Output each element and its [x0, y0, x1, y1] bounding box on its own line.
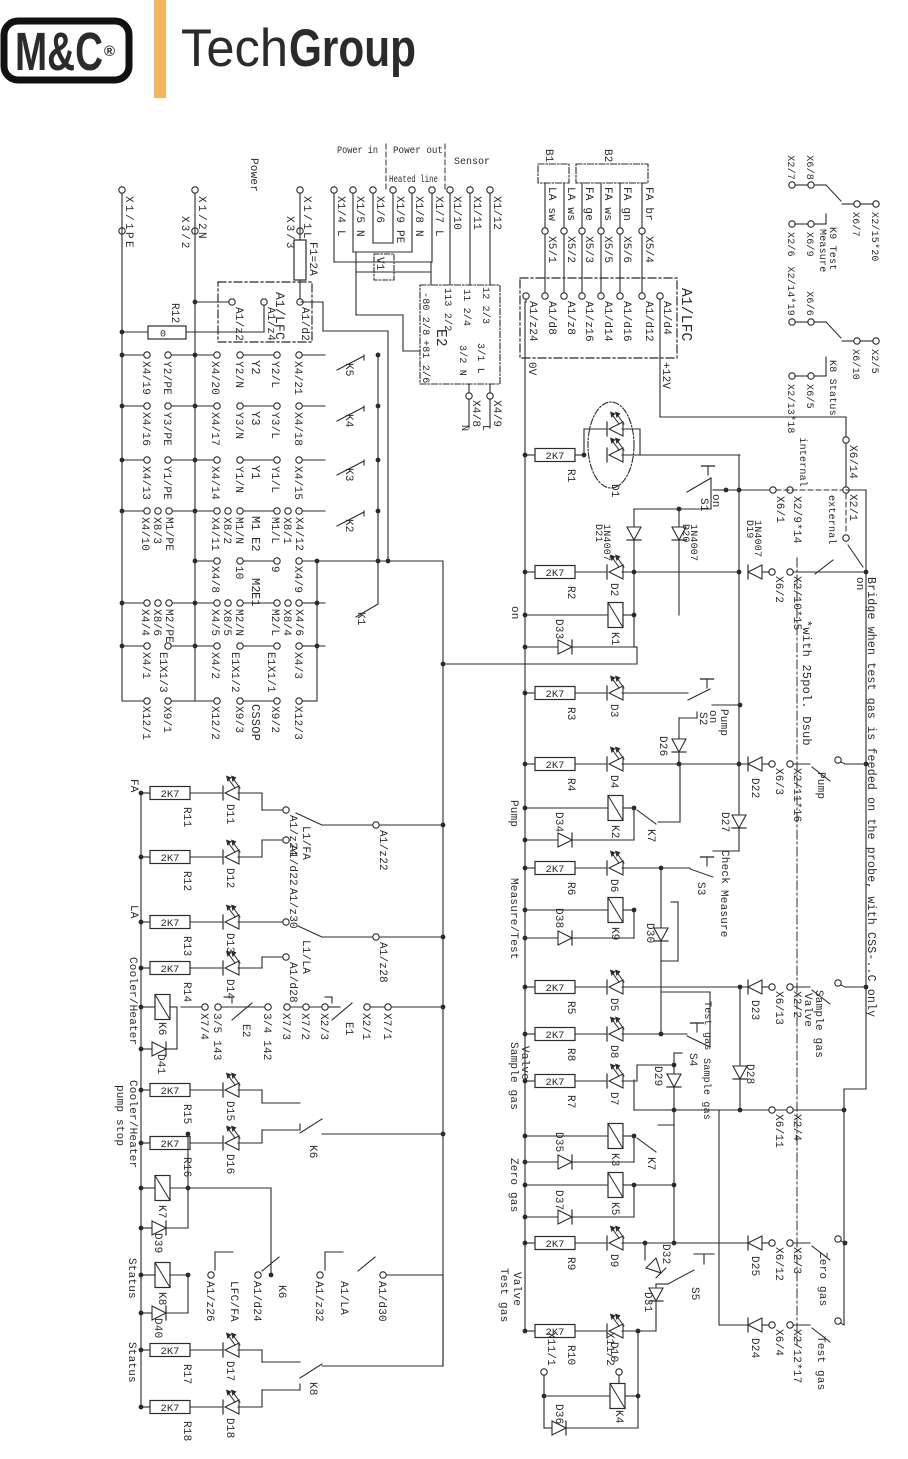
svg-text:X6/11: X6/11	[772, 1114, 784, 1148]
svg-text:E2: E2	[239, 1024, 251, 1038]
svg-text:10: 10	[232, 566, 244, 580]
svg-text:X6/5: X6/5	[803, 384, 815, 409]
svg-text:X1/6: X1/6	[373, 196, 385, 223]
svg-text:2K7: 2K7	[546, 1030, 565, 1042]
svg-text:FA ws: FA ws	[601, 187, 613, 221]
svg-text:D35: D35	[552, 1132, 564, 1152]
svg-text:R15: R15	[180, 1104, 192, 1124]
svg-text:0: 0	[160, 330, 166, 341]
svg-text:Y2/N: Y2/N	[232, 361, 244, 388]
svg-text:Y2/PE: Y2/PE	[160, 361, 172, 395]
svg-text:X2/12*17: X2/12*17	[790, 1329, 802, 1383]
svg-text:E1: E1	[342, 1022, 354, 1036]
svg-text:B1: B1	[542, 149, 554, 163]
svg-text:K1: K1	[608, 632, 620, 646]
svg-text:X9/2: X9/2	[268, 706, 280, 733]
svg-text:X5/5: X5/5	[601, 236, 613, 263]
svg-text:X1/5 N: X1/5 N	[353, 196, 365, 237]
svg-text:X2/5: X2/5	[868, 349, 880, 374]
svg-text:A1/d12: A1/d12	[642, 301, 654, 342]
svg-text:D12: D12	[223, 868, 235, 888]
svg-text:X8/3: X8/3	[150, 517, 162, 544]
svg-text:A1/z32: A1/z32	[312, 1281, 324, 1322]
svg-text:A1/LA: A1/LA	[337, 1281, 349, 1315]
svg-text:S5: S5	[688, 1287, 700, 1301]
svg-text:2K7: 2K7	[546, 1077, 565, 1089]
svg-text:D37: D37	[552, 1190, 564, 1210]
svg-text:X12/1: X12/1	[139, 706, 151, 740]
svg-text:2K7: 2K7	[546, 760, 565, 772]
svg-text:X6/8: X6/8	[803, 155, 815, 180]
svg-text:K6: K6	[306, 1145, 318, 1159]
svg-text:D24: D24	[748, 1338, 760, 1359]
svg-text:D27: D27	[718, 812, 730, 832]
svg-text:Cooler/Heater: Cooler/Heater	[126, 1080, 138, 1168]
svg-text:Zero gas: Zero gas	[507, 1158, 519, 1212]
svg-text:A1/z4: A1/z4	[264, 307, 276, 341]
svg-text:X4/10: X4/10	[138, 517, 150, 551]
svg-text:X6/14: X6/14	[846, 445, 858, 479]
svg-text:K7: K7	[644, 829, 656, 843]
svg-text:L: L	[479, 425, 490, 431]
svg-text:M1/PE: M1/PE	[162, 517, 174, 551]
svg-text:X1/1L: X1/1L	[300, 196, 312, 241]
svg-text:X8/6: X8/6	[150, 609, 162, 636]
svg-text:Zero gas: Zero gas	[816, 1252, 828, 1306]
svg-text:Y3/PE: Y3/PE	[160, 412, 172, 446]
svg-text:X2/14*19: X2/14*19	[784, 266, 796, 316]
svg-text:X4/4: X4/4	[138, 609, 150, 636]
svg-text:A1/d28: A1/d28	[286, 962, 298, 1003]
svg-text:Pump: Pump	[814, 772, 826, 799]
svg-text:D39: D39	[151, 1233, 163, 1253]
svg-text:Bridge when test gas is feeded: Bridge when test gas is feeded on the pr…	[864, 577, 877, 1017]
svg-text:K7: K7	[155, 1205, 167, 1219]
svg-text:K5: K5	[342, 363, 354, 377]
svg-text:on: on	[508, 606, 520, 620]
svg-text:Measure/Test: Measure/Test	[507, 878, 519, 960]
svg-text:X1/9 PE: X1/9 PE	[393, 196, 405, 244]
svg-text:12 2/3: 12 2/3	[479, 287, 491, 324]
svg-text:A1/z22: A1/z22	[376, 830, 388, 871]
svg-text:K8: K8	[155, 1292, 167, 1306]
svg-text:A1/z24: A1/z24	[526, 301, 538, 342]
svg-text:R7: R7	[564, 1095, 576, 1109]
svg-text:X1/1PE: X1/1PE	[122, 196, 134, 250]
svg-text:X1/10: X1/10	[450, 196, 462, 230]
svg-text:®: ®	[104, 43, 115, 60]
svg-text:Group: Group	[289, 19, 416, 78]
svg-text:X1/12: X1/12	[490, 196, 502, 230]
svg-text:FA br: FA br	[642, 187, 654, 221]
svg-text:R9: R9	[564, 1257, 576, 1271]
svg-text:2K7: 2K7	[161, 918, 180, 930]
svg-text:X9/1: X9/1	[160, 706, 172, 733]
svg-text:D30: D30	[643, 923, 655, 943]
svg-text:*with 25pol. Dsub: *with 25pol. Dsub	[799, 620, 813, 746]
svg-text:3/4 142: 3/4 142	[260, 1013, 272, 1061]
svg-text:2K7: 2K7	[161, 1086, 180, 1098]
svg-text:R4: R4	[564, 778, 576, 792]
svg-text:X1/2N: X1/2N	[195, 196, 207, 241]
svg-text:M2/N: M2/N	[232, 609, 244, 636]
svg-text:D32: D32	[659, 1244, 671, 1264]
svg-text:Y2/L: Y2/L	[268, 361, 280, 388]
svg-text:R1: R1	[564, 469, 576, 483]
svg-text:X8/5: X8/5	[220, 609, 232, 636]
svg-text:R11: R11	[180, 807, 192, 828]
svg-text:X2/3: X2/3	[790, 1247, 802, 1274]
svg-text:D26: D26	[656, 736, 668, 756]
svg-text:FA gn: FA gn	[620, 187, 632, 221]
svg-text:X6/4: X6/4	[772, 1329, 784, 1356]
svg-text:K4: K4	[342, 414, 354, 428]
svg-text:E2: E2	[432, 329, 448, 347]
svg-text:D34: D34	[552, 812, 564, 833]
svg-text:K4: K4	[612, 1410, 624, 1424]
svg-text:FA: FA	[127, 779, 139, 793]
svg-text:Power in: Power in	[337, 145, 378, 157]
svg-text:R6: R6	[564, 882, 576, 896]
svg-text:X4/5: X4/5	[208, 609, 220, 636]
svg-text:R5: R5	[564, 1001, 576, 1015]
svg-text:1N4007: 1N4007	[600, 524, 611, 561]
svg-text:N: N	[458, 425, 469, 431]
svg-text:X1/7 L: X1/7 L	[432, 196, 444, 237]
svg-text:LA: LA	[127, 905, 139, 919]
svg-text:Test gas: Test gas	[497, 1268, 509, 1322]
svg-text:K7: K7	[644, 1157, 656, 1171]
svg-text:on: on	[853, 577, 865, 591]
svg-text:D6: D6	[607, 879, 619, 893]
svg-text:X6/9: X6/9	[803, 232, 815, 257]
svg-text:D33: D33	[552, 619, 564, 639]
svg-text:3/5 143: 3/5 143	[210, 1013, 222, 1061]
svg-text:A1/d14: A1/d14	[601, 301, 613, 342]
svg-text:D23: D23	[748, 1000, 760, 1020]
svg-text:-80 2/8: -80 2/8	[419, 292, 431, 335]
svg-text:3/1 L: 3/1 L	[474, 343, 486, 374]
svg-text:M1/L: M1/L	[268, 517, 280, 544]
svg-text:2K7: 2K7	[546, 451, 565, 463]
svg-text:E1X1/1: E1X1/1	[264, 652, 276, 693]
svg-text:A1/d4: A1/d4	[660, 301, 672, 335]
svg-text:X6/12: X6/12	[772, 1247, 784, 1281]
svg-text:2K7: 2K7	[161, 1403, 180, 1415]
svg-text:A1/d22: A1/d22	[286, 845, 298, 886]
svg-text:0V: 0V	[525, 362, 537, 376]
svg-text:X4/8: X4/8	[208, 566, 220, 593]
svg-text:Y3: Y3	[248, 411, 262, 426]
svg-text:R13: R13	[180, 936, 192, 956]
svg-text:X7/4: X7/4	[197, 1013, 209, 1040]
svg-text:X6/7: X6/7	[849, 212, 861, 237]
svg-text:Measure: Measure	[717, 890, 729, 938]
svg-text:X2/1: X2/1	[359, 1013, 371, 1040]
svg-text:X2/11*16: X2/11*16	[790, 768, 802, 822]
svg-text:X2/15*20: X2/15*20	[868, 212, 880, 262]
svg-text:K9: K9	[608, 927, 620, 941]
svg-text:2K7: 2K7	[546, 864, 565, 876]
svg-text:X1/8 N: X1/8 N	[412, 196, 424, 237]
svg-text:Valve: Valve	[518, 1046, 530, 1080]
svg-text:pump stop: pump stop	[113, 1085, 125, 1146]
svg-text:D11: D11	[223, 804, 235, 825]
svg-text:X8/2: X8/2	[220, 517, 232, 544]
svg-text:M2: M2	[248, 578, 262, 593]
svg-text:2K7: 2K7	[161, 1139, 180, 1151]
svg-text:FA ge: FA ge	[582, 187, 594, 221]
svg-text:LA ws: LA ws	[564, 187, 576, 221]
svg-text:R3: R3	[564, 707, 576, 721]
svg-text:F1=2A: F1=2A	[306, 242, 318, 276]
svg-text:L1/FA: L1/FA	[299, 826, 311, 860]
svg-text:D15: D15	[223, 1101, 235, 1121]
svg-text:X4/18: X4/18	[291, 412, 303, 446]
svg-text:X4/16: X4/16	[139, 412, 151, 446]
svg-text:9: 9	[268, 566, 280, 573]
svg-text:2K7: 2K7	[546, 1239, 565, 1251]
svg-text:S1: S1	[697, 498, 709, 512]
svg-text:X2/7: X2/7	[784, 155, 796, 180]
svg-text:X6/13: X6/13	[772, 991, 784, 1025]
svg-text:E1: E1	[248, 592, 262, 607]
svg-text:X4/6: X4/6	[292, 609, 304, 636]
svg-text:A1/d2: A1/d2	[298, 307, 310, 341]
svg-text:X4/15: X4/15	[291, 466, 303, 500]
svg-text:2K7: 2K7	[161, 789, 180, 801]
svg-text:X4/20: X4/20	[208, 361, 220, 395]
svg-text:R18: R18	[180, 1421, 192, 1441]
svg-text:E1X1/2: E1X1/2	[228, 652, 240, 693]
svg-text:2K7: 2K7	[161, 853, 180, 865]
svg-text:M&C: M&C	[15, 22, 103, 82]
svg-text:X5/2: X5/2	[564, 236, 576, 263]
svg-text:X4/1: X4/1	[139, 652, 151, 679]
svg-text:X8/1: X8/1	[280, 517, 292, 544]
svg-text:LA sw: LA sw	[545, 187, 557, 221]
svg-text:X4/9: X4/9	[490, 400, 502, 427]
svg-text:R16: R16	[180, 1157, 192, 1177]
svg-text:D16: D16	[223, 1154, 235, 1174]
svg-text:D22: D22	[748, 778, 760, 798]
svg-text:K3: K3	[342, 468, 354, 482]
svg-text:Y1/PE: Y1/PE	[160, 466, 172, 500]
svg-text:K8: K8	[306, 1382, 318, 1396]
svg-text:R2: R2	[564, 586, 576, 600]
svg-text:X8/4: X8/4	[280, 609, 292, 636]
svg-text:D1: D1	[608, 484, 620, 498]
svg-text:X11/1: X11/1	[544, 1332, 556, 1366]
svg-text:Test gas: Test gas	[814, 1336, 826, 1390]
svg-text:D28: D28	[743, 1064, 755, 1084]
svg-text:A1/d30: A1/d30	[375, 1281, 387, 1322]
svg-text:A1/z16: A1/z16	[582, 301, 594, 342]
svg-text:2K7: 2K7	[546, 983, 565, 995]
svg-text:R8: R8	[564, 1048, 576, 1062]
svg-text:X2/1: X2/1	[846, 494, 858, 521]
svg-text:Measure: Measure	[816, 229, 827, 272]
svg-text:A1/z2: A1/z2	[232, 307, 244, 341]
svg-text:X7/3: X7/3	[279, 1013, 291, 1040]
svg-text:V1: V1	[373, 257, 385, 271]
svg-text:X4/9: X4/9	[291, 566, 303, 593]
svg-text:Y3/L: Y3/L	[268, 412, 280, 439]
svg-text:Status: Status	[125, 1258, 137, 1299]
svg-text:X6/6: X6/6	[803, 291, 815, 316]
svg-text:E2: E2	[248, 537, 262, 552]
svg-text:Tech: Tech	[181, 19, 288, 78]
svg-text:on: on	[706, 710, 718, 724]
svg-text:Y1/N: Y1/N	[232, 466, 244, 493]
svg-text:X1/4 L: X1/4 L	[334, 196, 346, 237]
svg-text:+12V: +12V	[659, 362, 671, 389]
svg-text:X5/1: X5/1	[545, 236, 557, 263]
svg-text:X4/8: X4/8	[469, 400, 481, 427]
svg-text:X6/3: X6/3	[772, 768, 784, 795]
svg-text:K1: K1	[354, 612, 366, 626]
svg-text:D38: D38	[552, 908, 564, 928]
svg-text:X4/19: X4/19	[139, 361, 151, 395]
svg-text:X2/3: X2/3	[317, 1013, 329, 1040]
svg-text:L1/LA: L1/LA	[299, 940, 311, 974]
svg-text:Sensor: Sensor	[454, 156, 490, 168]
svg-text:M1: M1	[248, 516, 262, 531]
svg-text:X2/13*18: X2/13*18	[784, 384, 796, 434]
svg-text:1N4007: 1N4007	[751, 520, 762, 557]
svg-text:D17: D17	[223, 1361, 235, 1381]
svg-text:X4/13: X4/13	[139, 466, 151, 500]
svg-text:Status: Status	[125, 1342, 137, 1383]
svg-text:A1/d24: A1/d24	[250, 1281, 262, 1322]
svg-text:D3: D3	[607, 704, 619, 718]
svg-text:2K7: 2K7	[546, 689, 565, 701]
svg-text:D41: D41	[154, 1054, 166, 1075]
svg-text:Sample gas: Sample gas	[507, 1042, 519, 1110]
svg-text:Heated line: Heated line	[389, 174, 438, 186]
svg-text:X1/11: X1/11	[470, 196, 482, 230]
svg-text:2K7: 2K7	[161, 1346, 180, 1358]
svg-text:R10: R10	[564, 1345, 576, 1365]
svg-text:X4/11: X4/11	[208, 517, 220, 551]
svg-text:A1/d16: A1/d16	[620, 301, 632, 342]
svg-text:X4/17: X4/17	[208, 412, 220, 446]
svg-text:R12: R12	[180, 871, 192, 891]
svg-text:11 2/4: 11 2/4	[460, 289, 472, 326]
svg-text:A1/d8: A1/d8	[545, 301, 557, 335]
svg-text:S4: S4	[686, 1053, 698, 1067]
svg-text:Check: Check	[718, 850, 730, 884]
svg-text:A1/LFC: A1/LFC	[677, 288, 693, 342]
svg-text:B2: B2	[601, 149, 613, 163]
svg-text:K6: K6	[155, 1022, 167, 1036]
svg-text:Y1: Y1	[248, 465, 262, 480]
svg-text:X5/4: X5/4	[642, 236, 654, 263]
svg-text:LFC/FA: LFC/FA	[227, 1281, 239, 1322]
svg-text:Valve: Valve	[510, 1272, 522, 1306]
svg-text:X12/2: X12/2	[208, 706, 220, 740]
svg-text:Pump: Pump	[717, 709, 729, 736]
svg-text:A1/z26: A1/z26	[203, 1281, 215, 1322]
svg-text:X6/2: X6/2	[772, 576, 784, 603]
svg-text:Sample gas: Sample gas	[700, 1058, 712, 1120]
svg-text:X5/6: X5/6	[620, 236, 632, 263]
svg-text:Pump: Pump	[507, 800, 519, 827]
svg-text:X7/1: X7/1	[380, 1013, 392, 1040]
svg-text:X2/6: X2/6	[784, 232, 796, 257]
svg-text:R14: R14	[180, 982, 192, 1003]
svg-text:D8: D8	[607, 1045, 619, 1059]
svg-text:Y1/L: Y1/L	[268, 466, 280, 493]
svg-text:M1/N: M1/N	[232, 517, 244, 544]
svg-text:D40: D40	[151, 1318, 163, 1338]
svg-text:K2: K2	[342, 519, 354, 533]
svg-text:Y3/N: Y3/N	[232, 412, 244, 439]
svg-text:X12/3: X12/3	[291, 706, 303, 740]
svg-text:D29: D29	[651, 1066, 663, 1086]
svg-text:X2/2: X2/2	[790, 991, 802, 1018]
svg-text:D13: D13	[223, 933, 235, 953]
svg-text:A1/z30: A1/z30	[286, 888, 298, 929]
svg-text:X3/2: X3/2	[178, 216, 190, 250]
svg-text:X2/4: X2/4	[790, 1114, 802, 1141]
svg-text:internal: internal	[796, 437, 808, 487]
svg-text:2K7: 2K7	[161, 964, 180, 976]
svg-text:R12: R12	[168, 303, 180, 323]
svg-text:1N4007: 1N4007	[687, 524, 698, 561]
svg-text:D5: D5	[607, 998, 619, 1012]
svg-text:A1/z8: A1/z8	[564, 301, 576, 335]
svg-text:D2: D2	[607, 583, 619, 597]
svg-text:X4/14: X4/14	[208, 466, 220, 500]
svg-text:A1/z28: A1/z28	[376, 942, 388, 983]
svg-text:X6/10: X6/10	[849, 349, 861, 380]
svg-text:113 2/2: 113 2/2	[441, 288, 453, 331]
svg-text:K3: K3	[608, 1153, 620, 1167]
svg-text:K5: K5	[608, 1202, 620, 1216]
svg-text:D25: D25	[748, 1256, 760, 1276]
svg-text:D4: D4	[607, 775, 619, 789]
svg-text:S3: S3	[694, 882, 706, 896]
svg-text:CSSOP: CSSOP	[248, 704, 262, 741]
svg-text:Power out: Power out	[393, 145, 443, 157]
svg-text:Power: Power	[247, 158, 259, 192]
svg-text:R17: R17	[180, 1364, 192, 1384]
svg-text:Valve: Valve	[801, 993, 813, 1027]
svg-text:D18: D18	[223, 1418, 235, 1438]
svg-text:D9: D9	[607, 1254, 619, 1268]
svg-text:X5/3: X5/3	[582, 236, 594, 263]
svg-text:K8 Status: K8 Status	[826, 360, 837, 416]
svg-text:D7: D7	[607, 1092, 619, 1106]
svg-text:K2: K2	[608, 825, 620, 839]
svg-text:Y2: Y2	[248, 360, 262, 375]
svg-text:M2/PE: M2/PE	[162, 609, 174, 643]
svg-text:X6/1: X6/1	[773, 496, 785, 523]
svg-text:X4/21: X4/21	[291, 361, 303, 395]
svg-text:X2/9*14: X2/9*14	[790, 496, 802, 544]
svg-text:2K7: 2K7	[546, 568, 565, 580]
svg-text:E1X1/3: E1X1/3	[156, 652, 168, 693]
svg-text:X4/2: X4/2	[208, 652, 220, 679]
svg-text:X9/3: X9/3	[232, 706, 244, 733]
svg-text:M2/L: M2/L	[268, 609, 280, 636]
svg-text:3/2 N: 3/2 N	[456, 345, 468, 376]
svg-text:D31: D31	[641, 1292, 653, 1313]
svg-text:X3/3: X3/3	[283, 216, 295, 250]
svg-text:Cooler/Heater: Cooler/Heater	[126, 957, 138, 1045]
svg-text:X4/3: X4/3	[291, 652, 303, 679]
